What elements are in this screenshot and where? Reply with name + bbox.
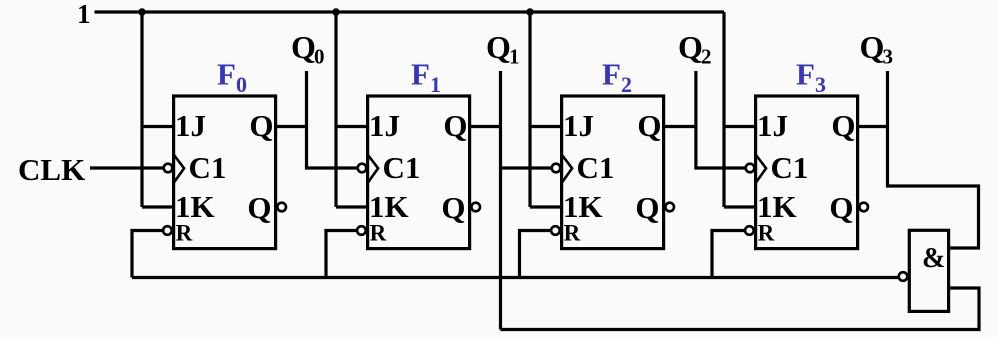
svg-text:Q: Q <box>831 108 855 143</box>
svg-text:1J: 1J <box>175 108 206 143</box>
svg-text:Q: Q <box>635 190 659 225</box>
svg-text:R: R <box>176 221 193 246</box>
svg-text:Q: Q <box>678 29 703 65</box>
svg-text:1J: 1J <box>369 108 400 143</box>
svg-text:F: F <box>602 57 621 92</box>
svg-text:R: R <box>370 221 387 246</box>
svg-text:Q: Q <box>247 190 271 225</box>
svg-text:Q: Q <box>249 108 273 143</box>
svg-text:C1: C1 <box>189 150 227 185</box>
svg-text:Q: Q <box>860 29 885 65</box>
svg-text:R: R <box>564 221 581 246</box>
svg-text:Q: Q <box>441 190 465 225</box>
svg-text:1K: 1K <box>563 189 603 224</box>
svg-text:1K: 1K <box>757 189 797 224</box>
svg-text:C1: C1 <box>771 150 809 185</box>
svg-text:&: & <box>922 243 945 274</box>
svg-text:0: 0 <box>314 45 325 69</box>
svg-text:F: F <box>217 57 236 92</box>
svg-text:2: 2 <box>621 72 632 97</box>
svg-text:0: 0 <box>236 72 247 97</box>
svg-text:Q: Q <box>443 108 467 143</box>
svg-text:Q: Q <box>637 108 661 143</box>
svg-text:1K: 1K <box>175 189 215 224</box>
svg-text:1: 1 <box>430 72 441 97</box>
svg-text:1J: 1J <box>563 108 594 143</box>
svg-text:Q: Q <box>486 29 511 65</box>
svg-text:R: R <box>758 221 775 246</box>
svg-text:C1: C1 <box>577 150 615 185</box>
svg-text:1: 1 <box>509 45 520 69</box>
svg-text:3: 3 <box>883 45 894 69</box>
svg-text:F: F <box>796 57 815 92</box>
svg-text:1: 1 <box>77 0 91 29</box>
svg-text:Q: Q <box>829 190 853 225</box>
svg-text:3: 3 <box>815 72 826 97</box>
svg-text:CLK: CLK <box>18 152 85 187</box>
svg-text:F: F <box>411 57 430 92</box>
svg-text:1J: 1J <box>757 108 788 143</box>
svg-text:2: 2 <box>701 45 712 69</box>
svg-text:1K: 1K <box>369 189 409 224</box>
svg-text:Q: Q <box>291 29 316 65</box>
svg-text:C1: C1 <box>383 150 421 185</box>
